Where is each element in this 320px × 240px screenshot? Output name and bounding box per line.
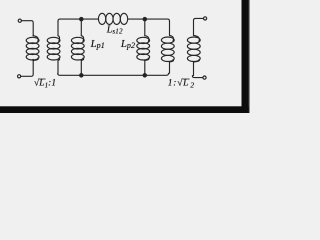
- inductor Lp2: [137, 19, 150, 75]
- inductor Lp1: [71, 19, 84, 75]
- inductor Ls12 series coil: [98, 13, 127, 24]
- wire T2 secondary to right top port: [194, 18, 204, 20]
- frame: black right bar: [242, 0, 249, 113]
- node P1- left bottom port terminal: [18, 75, 21, 78]
- node P2+ right top port terminal: [204, 17, 207, 20]
- radical overbar left label: [39, 78, 46, 80]
- node junction dot bottom rail / Lp1: [80, 74, 83, 77]
- inductor T2 primary winding: [161, 21, 174, 73]
- node P1+ left top port terminal: [18, 19, 21, 22]
- radical overbar right label: [182, 78, 189, 80]
- wire top rail from Ls12 to T2 primary: [128, 19, 170, 21]
- wire bottom rail from T1s to T2p: [58, 73, 169, 75]
- node junction dot top rail / Lp1: [80, 17, 83, 20]
- inductor T1 primary winding: [26, 35, 39, 60]
- node junction dot bottom rail / Lp2: [143, 74, 146, 77]
- inductor T1 secondary winding: [47, 21, 60, 73]
- wire T2 secondary to right bottom port: [192, 76, 203, 78]
- frame: right edge gray sliver: [249, 0, 250, 113]
- wire left top port to T1 primary: [21, 21, 33, 36]
- node P2- right bottom port terminal: [203, 76, 206, 79]
- wire left bottom port to T1 primary: [21, 59, 34, 76]
- frame: black bottom band: [0, 106, 250, 113]
- inductor T2 secondary winding: [187, 20, 200, 75]
- wire top rail from T1s to Ls12: [58, 19, 99, 21]
- node junction dot top rail / Lp2: [143, 17, 146, 20]
